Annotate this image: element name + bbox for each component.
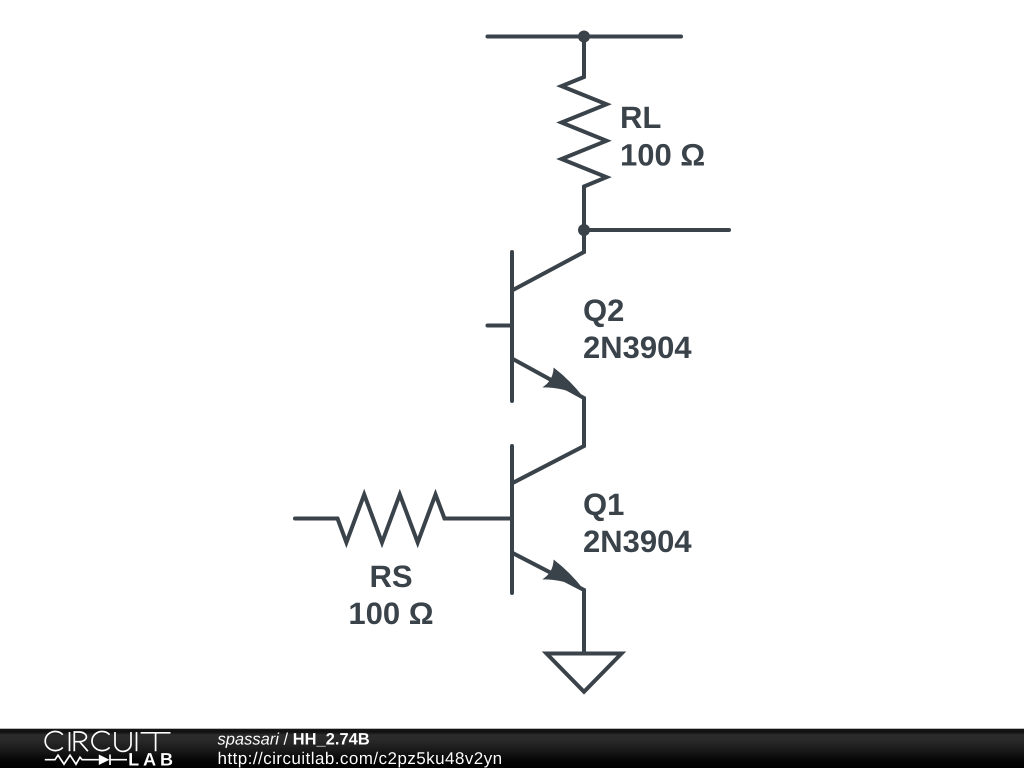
wire mid rail right bbox=[584, 228, 729, 232]
wire RL bottom lead bbox=[582, 187, 586, 231]
label Q2 part bbox=[584, 336, 691, 358]
resistor RL bbox=[562, 77, 607, 187]
label RS value bbox=[350, 602, 432, 624]
resistor RS left lead bbox=[295, 517, 338, 521]
label RL bbox=[622, 107, 660, 128]
transistor Q1 base bar bbox=[510, 446, 514, 593]
footer url bbox=[219, 752, 501, 768]
wire RL top lead bbox=[582, 37, 586, 78]
ground bbox=[547, 654, 622, 692]
transistor Q2 emitter limb + wire + transistor Q1 collector limb bbox=[512, 359, 584, 484]
wire Q2 base stub bbox=[488, 324, 513, 328]
wire RS to Q1 base bbox=[445, 517, 513, 521]
wire top rail bbox=[488, 35, 682, 39]
logo resistor+diode bbox=[45, 755, 127, 766]
label RS bbox=[372, 565, 412, 587]
label Q1 part bbox=[584, 530, 691, 552]
node dot top bbox=[578, 31, 590, 43]
transistor Q2 base bar bbox=[510, 252, 514, 401]
transistor Q1 emitter arrow bbox=[542, 560, 584, 591]
footer title bbox=[218, 733, 370, 748]
transistor Q1 emitter limb + wire to ground bbox=[512, 553, 584, 653]
resistor RS bbox=[338, 495, 445, 543]
wire node to collector + transistor Q2 collector limb bbox=[512, 230, 584, 291]
footer bar bbox=[0, 727, 1024, 768]
label Q1 bbox=[584, 493, 623, 521]
node dot mid bbox=[578, 224, 590, 236]
logo CIRCUIT bbox=[45, 732, 170, 752]
label Q2 bbox=[584, 299, 623, 327]
logo LAB bbox=[129, 753, 172, 765]
transistor Q2 emitter arrow bbox=[542, 368, 584, 399]
label RL value bbox=[622, 144, 704, 166]
